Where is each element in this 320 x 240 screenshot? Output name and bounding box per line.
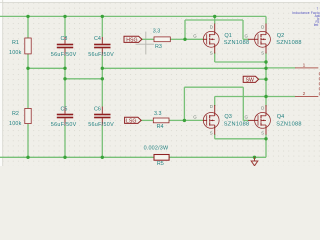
- junction HSG gate: [183, 38, 186, 41]
- svg-text:R1: R1: [12, 40, 19, 46]
- wire HSG to R3: [142, 38, 154, 40]
- wire SW rail to inductor pin 1: [266, 67, 296, 69]
- capacitor C3: [51, 36, 77, 58]
- svg-text:100k: 100k: [9, 50, 22, 56]
- global label LSG: [125, 117, 142, 124]
- svg-text:G: G: [193, 115, 197, 120]
- svg-text:Q3: Q3: [224, 114, 231, 120]
- wire LSG gate drop to Q4: [242, 87, 244, 120]
- wire Q2 drain drop: [265, 16, 267, 24]
- junction C4 top: [101, 15, 104, 18]
- junction R2 ground: [26, 156, 29, 159]
- wire SW rail segment right: [102, 67, 266, 69]
- svg-text:HSG: HSG: [126, 37, 137, 43]
- wire R2 bottom: [27, 124, 29, 158]
- wire HSG gate drop to Q2: [242, 20, 244, 39]
- junction C3 SW rail: [63, 67, 66, 70]
- svg-text:SZN1088: SZN1088: [276, 121, 302, 127]
- wire C6 bottom: [101, 126, 103, 158]
- wire SW to inductor pin 2: [215, 96, 296, 98]
- junction R1 R2 SW rail: [26, 67, 29, 70]
- wire SW dip bottom: [65, 78, 102, 80]
- wire ground rail right: [169, 156, 266, 158]
- capacitor C6: [88, 106, 114, 127]
- svg-text:C6: C6: [94, 106, 101, 112]
- svg-text:D: D: [210, 104, 213, 109]
- svg-text:C5: C5: [61, 106, 68, 112]
- svg-text:S: S: [261, 130, 264, 135]
- junction Q4 source: [264, 137, 267, 140]
- wire Q3 drain up: [214, 97, 216, 107]
- wire Q1 source down: [214, 53, 216, 63]
- resistor R4: [153, 111, 169, 130]
- wire gate junction to Q1 gate: [185, 38, 203, 40]
- svg-text:D: D: [210, 25, 213, 30]
- junction LSG gate: [183, 119, 186, 122]
- junction source join: [264, 60, 267, 63]
- svg-text:56uF/50V: 56uF/50V: [88, 122, 114, 128]
- inductor L1 winding (clipped at sheet edge): [318, 72, 320, 95]
- wire C5 top: [64, 79, 66, 107]
- svg-text:LSG: LSG: [126, 118, 136, 124]
- junction C6 dip: [101, 77, 104, 80]
- svg-text:S: S: [210, 50, 213, 55]
- wire R4 to gate junction: [169, 119, 184, 121]
- wire SW rail segment left: [28, 67, 65, 69]
- wire C3 top: [64, 16, 66, 37]
- svg-text:3.3: 3.3: [153, 29, 161, 35]
- wire HSG gate jog top: [185, 19, 243, 21]
- svg-text:G: G: [245, 33, 249, 38]
- cursor crosshair: [136, 32, 155, 55]
- wire SW dip left: [64, 68, 66, 79]
- svg-text:R5: R5: [157, 161, 164, 166]
- resistor R2: [9, 108, 31, 126]
- wire to Q4 gate: [243, 119, 248, 121]
- svg-text:Q2: Q2: [277, 33, 284, 39]
- wire C4 bottom: [101, 56, 103, 69]
- junction R1 top: [26, 15, 29, 18]
- svg-text:Imt: Imt: [314, 23, 319, 27]
- svg-text:SW: SW: [246, 77, 254, 83]
- svg-text:56uF/50V: 56uF/50V: [51, 122, 77, 128]
- global label SW: [243, 76, 258, 83]
- wire Q1 drain drop: [214, 16, 216, 24]
- wire C6 top: [101, 79, 103, 107]
- svg-text:SZN1088: SZN1088: [276, 40, 302, 46]
- wire SW label stub: [259, 78, 266, 80]
- wire SW dip right: [101, 68, 103, 79]
- wire R1 bottom to SW rail: [27, 54, 29, 69]
- junction Q1 drain: [213, 15, 216, 18]
- wire to Q2 gate: [243, 38, 249, 40]
- wire source join: [215, 61, 266, 63]
- transistor Q4: [245, 105, 302, 135]
- global label HSG: [124, 36, 142, 43]
- svg-text:C3: C3: [61, 36, 68, 42]
- svg-text:R3: R3: [155, 44, 162, 50]
- transistor Q3: [193, 104, 249, 135]
- wire LSG gate riser: [183, 87, 185, 120]
- capacitor C5: [51, 106, 77, 127]
- wire HSG gate riser: [184, 20, 186, 39]
- svg-text:0.002/3W: 0.002/3W: [144, 146, 169, 152]
- svg-text:Q1: Q1: [224, 33, 231, 39]
- wire source rail Q3 Q4: [215, 138, 266, 140]
- junction C3 top: [63, 15, 66, 18]
- note text (inductance notes, clipped): [292, 7, 320, 27]
- wire gate junction to Q3 gate: [184, 119, 203, 121]
- svg-text:100k: 100k: [9, 121, 22, 127]
- wire Q4 source down: [265, 134, 267, 139]
- wire R1 top: [27, 16, 29, 38]
- junction ground symbol: [253, 156, 256, 159]
- wire C4 top: [101, 16, 103, 37]
- wire LSG gate jog top: [184, 86, 243, 88]
- svg-text:R4: R4: [157, 124, 164, 130]
- inductor L1 pin 2: [295, 91, 318, 97]
- resistor R5: [144, 146, 170, 167]
- svg-text:G: G: [245, 115, 249, 120]
- svg-text:3.3: 3.3: [154, 111, 162, 117]
- wire top rail VIN: [0, 15, 266, 17]
- svg-text:G: G: [193, 33, 197, 38]
- wire drop to ground rail: [265, 139, 267, 158]
- junction C6 ground: [101, 156, 104, 159]
- svg-text:56uF/50V: 56uF/50V: [88, 52, 114, 58]
- junction C5 ground: [63, 156, 66, 159]
- junction inductor pin 2: [264, 95, 267, 98]
- svg-text:C4: C4: [94, 36, 101, 42]
- transistor Q2: [245, 24, 302, 56]
- wire C5 bottom: [64, 126, 66, 158]
- junction C5 dip: [63, 77, 66, 80]
- wire ground rail left: [0, 156, 154, 158]
- wire LSG to R4: [141, 119, 153, 121]
- svg-text:S: S: [210, 130, 213, 135]
- power symbol GND: [251, 157, 258, 166]
- svg-text:SZN1088: SZN1088: [224, 40, 250, 46]
- wire C3 bottom: [64, 56, 66, 69]
- svg-text:1: 1: [303, 63, 306, 69]
- transistor Q1: [193, 24, 249, 56]
- junction C4 SW rail: [101, 67, 104, 70]
- junction SW label: [264, 78, 267, 81]
- wire R3 to gate junction: [170, 38, 185, 40]
- resistor R1: [9, 38, 31, 56]
- wire Q2 source / SW vertical: [265, 53, 267, 107]
- svg-text:R2: R2: [12, 111, 19, 117]
- svg-text:2: 2: [303, 91, 306, 97]
- svg-text:D: D: [261, 106, 264, 111]
- wire Q3 source down: [214, 134, 216, 139]
- svg-text:D: D: [261, 25, 264, 30]
- svg-text:Q4: Q4: [277, 114, 284, 120]
- svg-text:SZN1088: SZN1088: [224, 121, 250, 127]
- capacitor C4: [88, 36, 114, 58]
- junction SW rail end: [264, 67, 267, 70]
- inductor L1 pin 1: [295, 63, 318, 69]
- wire R2 top: [27, 68, 29, 108]
- svg-text:S: S: [261, 50, 264, 55]
- svg-text:56uF/50V: 56uF/50V: [51, 52, 77, 58]
- resistor R3: [153, 29, 171, 51]
